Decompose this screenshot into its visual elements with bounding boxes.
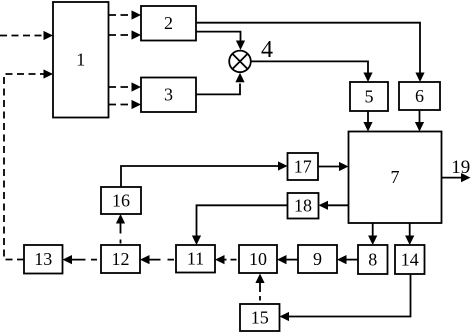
wire feedback loop left dashed: 13 to 1 bbox=[4, 74, 44, 260]
block 9 bbox=[298, 245, 337, 273]
block 14 bbox=[395, 245, 425, 274]
wire 2 to mixer bbox=[196, 32, 241, 41]
arrowhead 17 into 7 bbox=[339, 162, 349, 171]
wire 7 to 19 output bbox=[442, 177, 462, 179]
arrowhead 8 into 9 bbox=[337, 255, 347, 264]
svg-text:12: 12 bbox=[112, 249, 130, 269]
arrowhead into 6 bbox=[415, 73, 424, 83]
wire 7 to 8 bbox=[372, 223, 374, 236]
wire 6 to 7 bbox=[419, 110, 421, 122]
mixer 4 cross bbox=[232, 54, 247, 69]
mixer 4 circle bbox=[229, 51, 251, 73]
block 7 bbox=[349, 132, 442, 224]
arrowhead into 3 upper bbox=[132, 82, 142, 91]
block 15 bbox=[240, 304, 280, 331]
arrowhead output 19 bbox=[461, 173, 471, 182]
wire 12 to 16 dashed bbox=[120, 223, 122, 244]
block 2 bbox=[141, 6, 196, 41]
wire mixer to 5 bbox=[251, 61, 368, 72]
block 1 bbox=[53, 2, 109, 118]
wire 8 to 9 bbox=[347, 259, 359, 261]
wire 12 to 13 dashed bbox=[72, 259, 98, 261]
svg-text:16: 16 bbox=[112, 191, 130, 211]
wire 5 to 7 bbox=[367, 111, 369, 122]
block 13 bbox=[24, 245, 63, 274]
svg-text:17: 17 bbox=[294, 157, 312, 177]
block 17 bbox=[288, 153, 319, 180]
arrowhead into 1 lower bbox=[44, 69, 54, 78]
svg-text:9: 9 bbox=[313, 249, 322, 269]
wire 9 to 10 bbox=[287, 259, 299, 261]
svg-text:19: 19 bbox=[451, 157, 470, 178]
block 11 bbox=[176, 245, 215, 273]
svg-text:5: 5 bbox=[365, 87, 374, 107]
block 18 bbox=[288, 193, 319, 219]
block 16 bbox=[101, 187, 141, 214]
wire 2 to 6 top bbox=[196, 23, 420, 73]
arrowhead into 2 lower bbox=[132, 30, 142, 39]
svg-text:2: 2 bbox=[164, 13, 173, 33]
arrowhead into 18 bbox=[319, 201, 329, 210]
arrowhead 18 into 11 bbox=[192, 236, 201, 246]
arrowhead 9 into 10 bbox=[277, 255, 287, 264]
wire 1-2 upper dashed bbox=[109, 14, 133, 16]
wire 15 to 10 dashed bbox=[259, 283, 261, 301]
wire 11 to 12 dashed bbox=[149, 259, 174, 261]
arrowhead 12 into 16 bbox=[116, 214, 125, 224]
wire 1-2 lower dashed bbox=[109, 34, 133, 36]
block 5 bbox=[350, 82, 388, 111]
arrowhead 7 into 8 bbox=[368, 236, 377, 246]
svg-text:6: 6 bbox=[415, 86, 424, 106]
svg-text:8: 8 bbox=[368, 250, 377, 270]
arrowhead 12 into 13 bbox=[63, 255, 73, 264]
svg-text:18: 18 bbox=[294, 196, 312, 216]
svg-text:15: 15 bbox=[251, 308, 269, 328]
svg-text:3: 3 bbox=[164, 85, 173, 105]
wire 1-3 upper dashed bbox=[109, 86, 133, 88]
arrowhead 15 into 10 bbox=[255, 274, 264, 284]
wire input-1 upper dashed bbox=[0, 35, 44, 37]
wire 1-3 lower dashed bbox=[109, 104, 133, 106]
svg-text:13: 13 bbox=[34, 249, 52, 269]
arrowhead 10 into 11 bbox=[215, 255, 225, 264]
svg-text:1: 1 bbox=[76, 50, 85, 70]
svg-text:7: 7 bbox=[391, 167, 400, 187]
arrowhead into mixer bottom bbox=[235, 73, 244, 83]
wire 18 to 11 bbox=[197, 205, 288, 235]
svg-text:4: 4 bbox=[261, 37, 273, 63]
arrowhead into 1 upper bbox=[44, 31, 54, 40]
block 8 bbox=[358, 245, 388, 274]
wire 3 to mixer bbox=[196, 84, 240, 95]
arrowhead into 5 bbox=[363, 73, 372, 83]
arrowhead 6 into 7 bbox=[415, 122, 424, 132]
svg-text:10: 10 bbox=[249, 249, 267, 269]
block 3 bbox=[141, 78, 196, 113]
wire 16 to 17 bbox=[121, 166, 278, 187]
arrowhead into 17 bbox=[278, 161, 288, 170]
wire 14 to 15 bbox=[289, 274, 411, 317]
block 10 bbox=[239, 245, 277, 273]
arrowhead into 2 upper bbox=[132, 10, 142, 19]
wire 17 to 7 bbox=[318, 166, 339, 168]
arrowhead 5 into 7 bbox=[363, 122, 372, 132]
wire 10 to 11 dashed bbox=[224, 259, 237, 261]
arrowhead into mixer top bbox=[236, 41, 245, 51]
arrowhead 14 into 15 bbox=[280, 312, 290, 321]
wire 7 to 18 bbox=[328, 204, 349, 206]
arrowhead 11 into 12 bbox=[140, 255, 150, 264]
arrowhead into 3 lower bbox=[132, 100, 142, 109]
svg-text:14: 14 bbox=[401, 250, 419, 270]
block 12 bbox=[101, 245, 140, 273]
arrowhead 7 into 14 bbox=[405, 236, 414, 246]
wire 7 to 14 bbox=[409, 223, 411, 236]
svg-text:11: 11 bbox=[187, 249, 204, 269]
block 6 bbox=[399, 82, 440, 110]
